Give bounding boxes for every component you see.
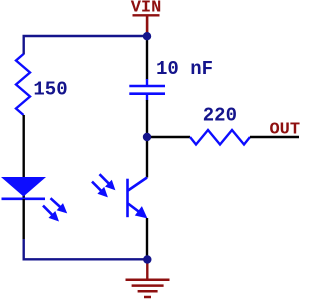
phototransistor collector line (128, 178, 147, 191)
capacitor bottom plate (129, 92, 165, 95)
LED emission arrow 2 (43, 206, 59, 222)
phototransistor Q1 base bar (126, 179, 129, 218)
capacitor top plate (129, 85, 165, 88)
wire top horizontal and left down to resistor (24, 36, 147, 55)
capacitor C 10 nF top stub (146, 79, 148, 86)
ground bar 2 (132, 284, 164, 287)
svg-text:220: 220 (203, 105, 237, 127)
wire middle node down to transistor collector (146, 137, 148, 178)
light arrow 2 into phototransistor (92, 182, 108, 198)
wire middle node to resistor 220 (147, 136, 190, 138)
wire VIN node down to capacitor (146, 36, 148, 80)
LED D1 triangle (1, 177, 46, 197)
resistor R 150 (vertical zigzag) (16, 54, 30, 115)
ground bar 4 (144, 296, 151, 299)
wire transistor emitter to ground node (146, 218, 148, 260)
wire resistor to LED (23, 115, 25, 200)
ground bar 1 (126, 279, 170, 282)
wire capacitor to middle node (146, 100, 148, 137)
svg-text:10 nF: 10 nF (156, 58, 213, 80)
LED cathode bar (2, 198, 46, 201)
node junction dot at VIN (143, 32, 151, 40)
LED emission arrow 1 (51, 198, 68, 213)
node junction dot middle (143, 133, 151, 141)
node junction dot at ground (143, 255, 151, 263)
ground bar 3 (138, 290, 158, 293)
light arrow 1 into phototransistor (100, 174, 116, 190)
capacitor bottom stub (146, 94, 148, 101)
ground symbol stem (146, 260, 148, 281)
VIN power symbol bar (133, 14, 160, 16)
svg-text:150: 150 (33, 79, 67, 101)
wire resistor 220 to OUT (250, 136, 299, 138)
resistor R 220 (horizontal zigzag) (190, 130, 250, 145)
VIN power symbol stem (146, 15, 149, 36)
svg-text:OUT: OUT (269, 121, 300, 140)
wire bottom left corner (24, 239, 147, 259)
wire LED to bottom corner (23, 199, 25, 239)
phototransistor emitter line (128, 204, 141, 214)
phototransistor emitter arrowhead (135, 206, 148, 218)
